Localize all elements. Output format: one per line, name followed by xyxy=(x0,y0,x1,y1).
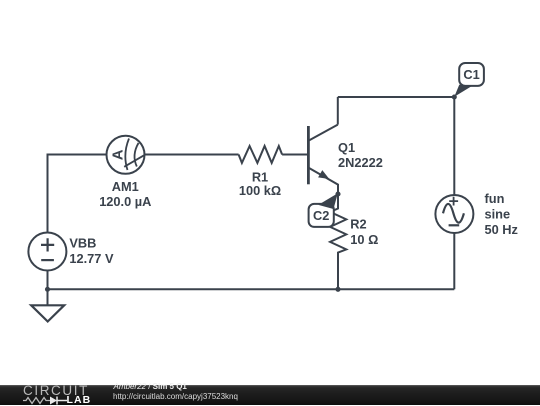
wire xyxy=(48,154,239,156)
url text xyxy=(113,393,238,401)
svg-text:sine: sine xyxy=(485,207,511,222)
ground xyxy=(31,305,64,321)
svg-text:C2: C2 xyxy=(313,208,329,223)
svg-text:10 Ω: 10 Ω xyxy=(350,232,378,247)
voltage source VBB xyxy=(28,233,66,271)
svg-text:fun: fun xyxy=(485,191,505,206)
node junction dot top right xyxy=(452,94,457,99)
wire xyxy=(48,288,455,290)
svg-text:A: A xyxy=(109,149,126,160)
svg-text:120.0 µA: 120.0 µA xyxy=(99,194,151,209)
transistor Q1 xyxy=(308,125,338,194)
svg-text:AM1: AM1 xyxy=(112,179,139,194)
ammeter AM1 xyxy=(107,136,145,174)
sine source fun xyxy=(435,195,473,233)
wire xyxy=(282,154,308,156)
node flag C2 xyxy=(309,193,338,227)
footer bar xyxy=(0,385,540,405)
resistor R2 xyxy=(330,194,346,289)
node junction dot R2 bottom xyxy=(335,287,340,292)
node flag C1 xyxy=(454,63,484,97)
svg-text:Q1: Q1 xyxy=(338,140,355,155)
svg-text:2N2222: 2N2222 xyxy=(338,155,383,170)
wire xyxy=(338,96,455,98)
svg-text:VBB: VBB xyxy=(69,236,96,251)
svg-text:12.77 V: 12.77 V xyxy=(69,251,114,266)
node junction dot ground rail left xyxy=(45,287,50,292)
wire xyxy=(453,97,455,289)
node junction dot emitter/R2 xyxy=(335,191,340,196)
wire xyxy=(337,97,339,125)
svg-text:R2: R2 xyxy=(350,216,366,231)
svg-text:C1: C1 xyxy=(463,67,479,82)
title text xyxy=(114,383,187,391)
resistor R1 xyxy=(239,146,283,163)
svg-text:100 kΩ: 100 kΩ xyxy=(239,183,281,198)
svg-text:50 Hz: 50 Hz xyxy=(485,222,518,237)
CircuitLab logo xyxy=(23,385,98,405)
logo resistor zigzag and diode xyxy=(23,398,50,404)
wire xyxy=(47,154,49,306)
